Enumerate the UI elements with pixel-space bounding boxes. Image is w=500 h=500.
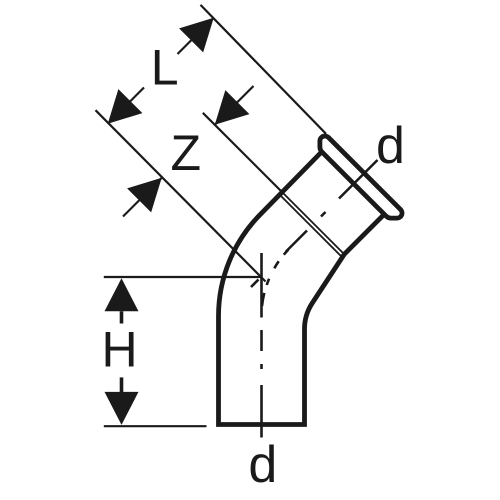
inclined centerline dash 3 [251,280,259,288]
bend centerline arc dot 1 [267,279,269,285]
L dimension arrow top [179,18,214,53]
H dimension arrow up [105,278,139,311]
bend centerline arc dot 2 [284,250,289,255]
H extension line bottom [104,425,207,427]
bend centerline arc dash 2 [274,261,278,268]
L dimension arrow bottom [108,89,143,124]
H dimension stem lower [120,377,124,392]
vertical centerline dash 4 [260,385,263,438]
vertical centerline dash 3 [260,330,263,351]
L dimension tail bottom [108,88,144,124]
Z dimension tail upper-right [215,86,254,125]
inclined centerline dash 2 [286,231,307,252]
bend centerline arc dash 1 [262,293,264,306]
inclined centerline dash 1 [339,160,378,199]
extension line B (socket mouth plane) [203,113,282,192]
H dimension stem upper [120,311,124,323]
inclined centerline dot 1 [321,212,326,217]
svg-text:d: d [248,436,277,494]
press socket bead [320,136,402,218]
extension line A (socket end face) [201,5,327,134]
fitting body outline (45-degree bend with plain end) [219,152,385,425]
Z dimension arrow upper-right [215,90,250,125]
vertical centerline dash 1 [260,253,263,318]
H dimension arrow down [105,392,139,425]
L dimension tail top [178,18,214,54]
Z dimension tail lower-left [123,178,162,217]
svg-text:d: d [376,117,405,175]
svg-text:H: H [102,322,138,378]
Z dimension arrow lower-left [127,178,162,213]
vertical centerline dot [260,364,263,369]
svg-text:L: L [151,40,179,96]
extension line through center [96,110,266,281]
socket mouth rim line 1 [282,192,345,255]
socket mouth rim line 2 [279,194,342,256]
H extension line top (through center) [104,276,263,278]
svg-text:Z: Z [171,125,202,181]
